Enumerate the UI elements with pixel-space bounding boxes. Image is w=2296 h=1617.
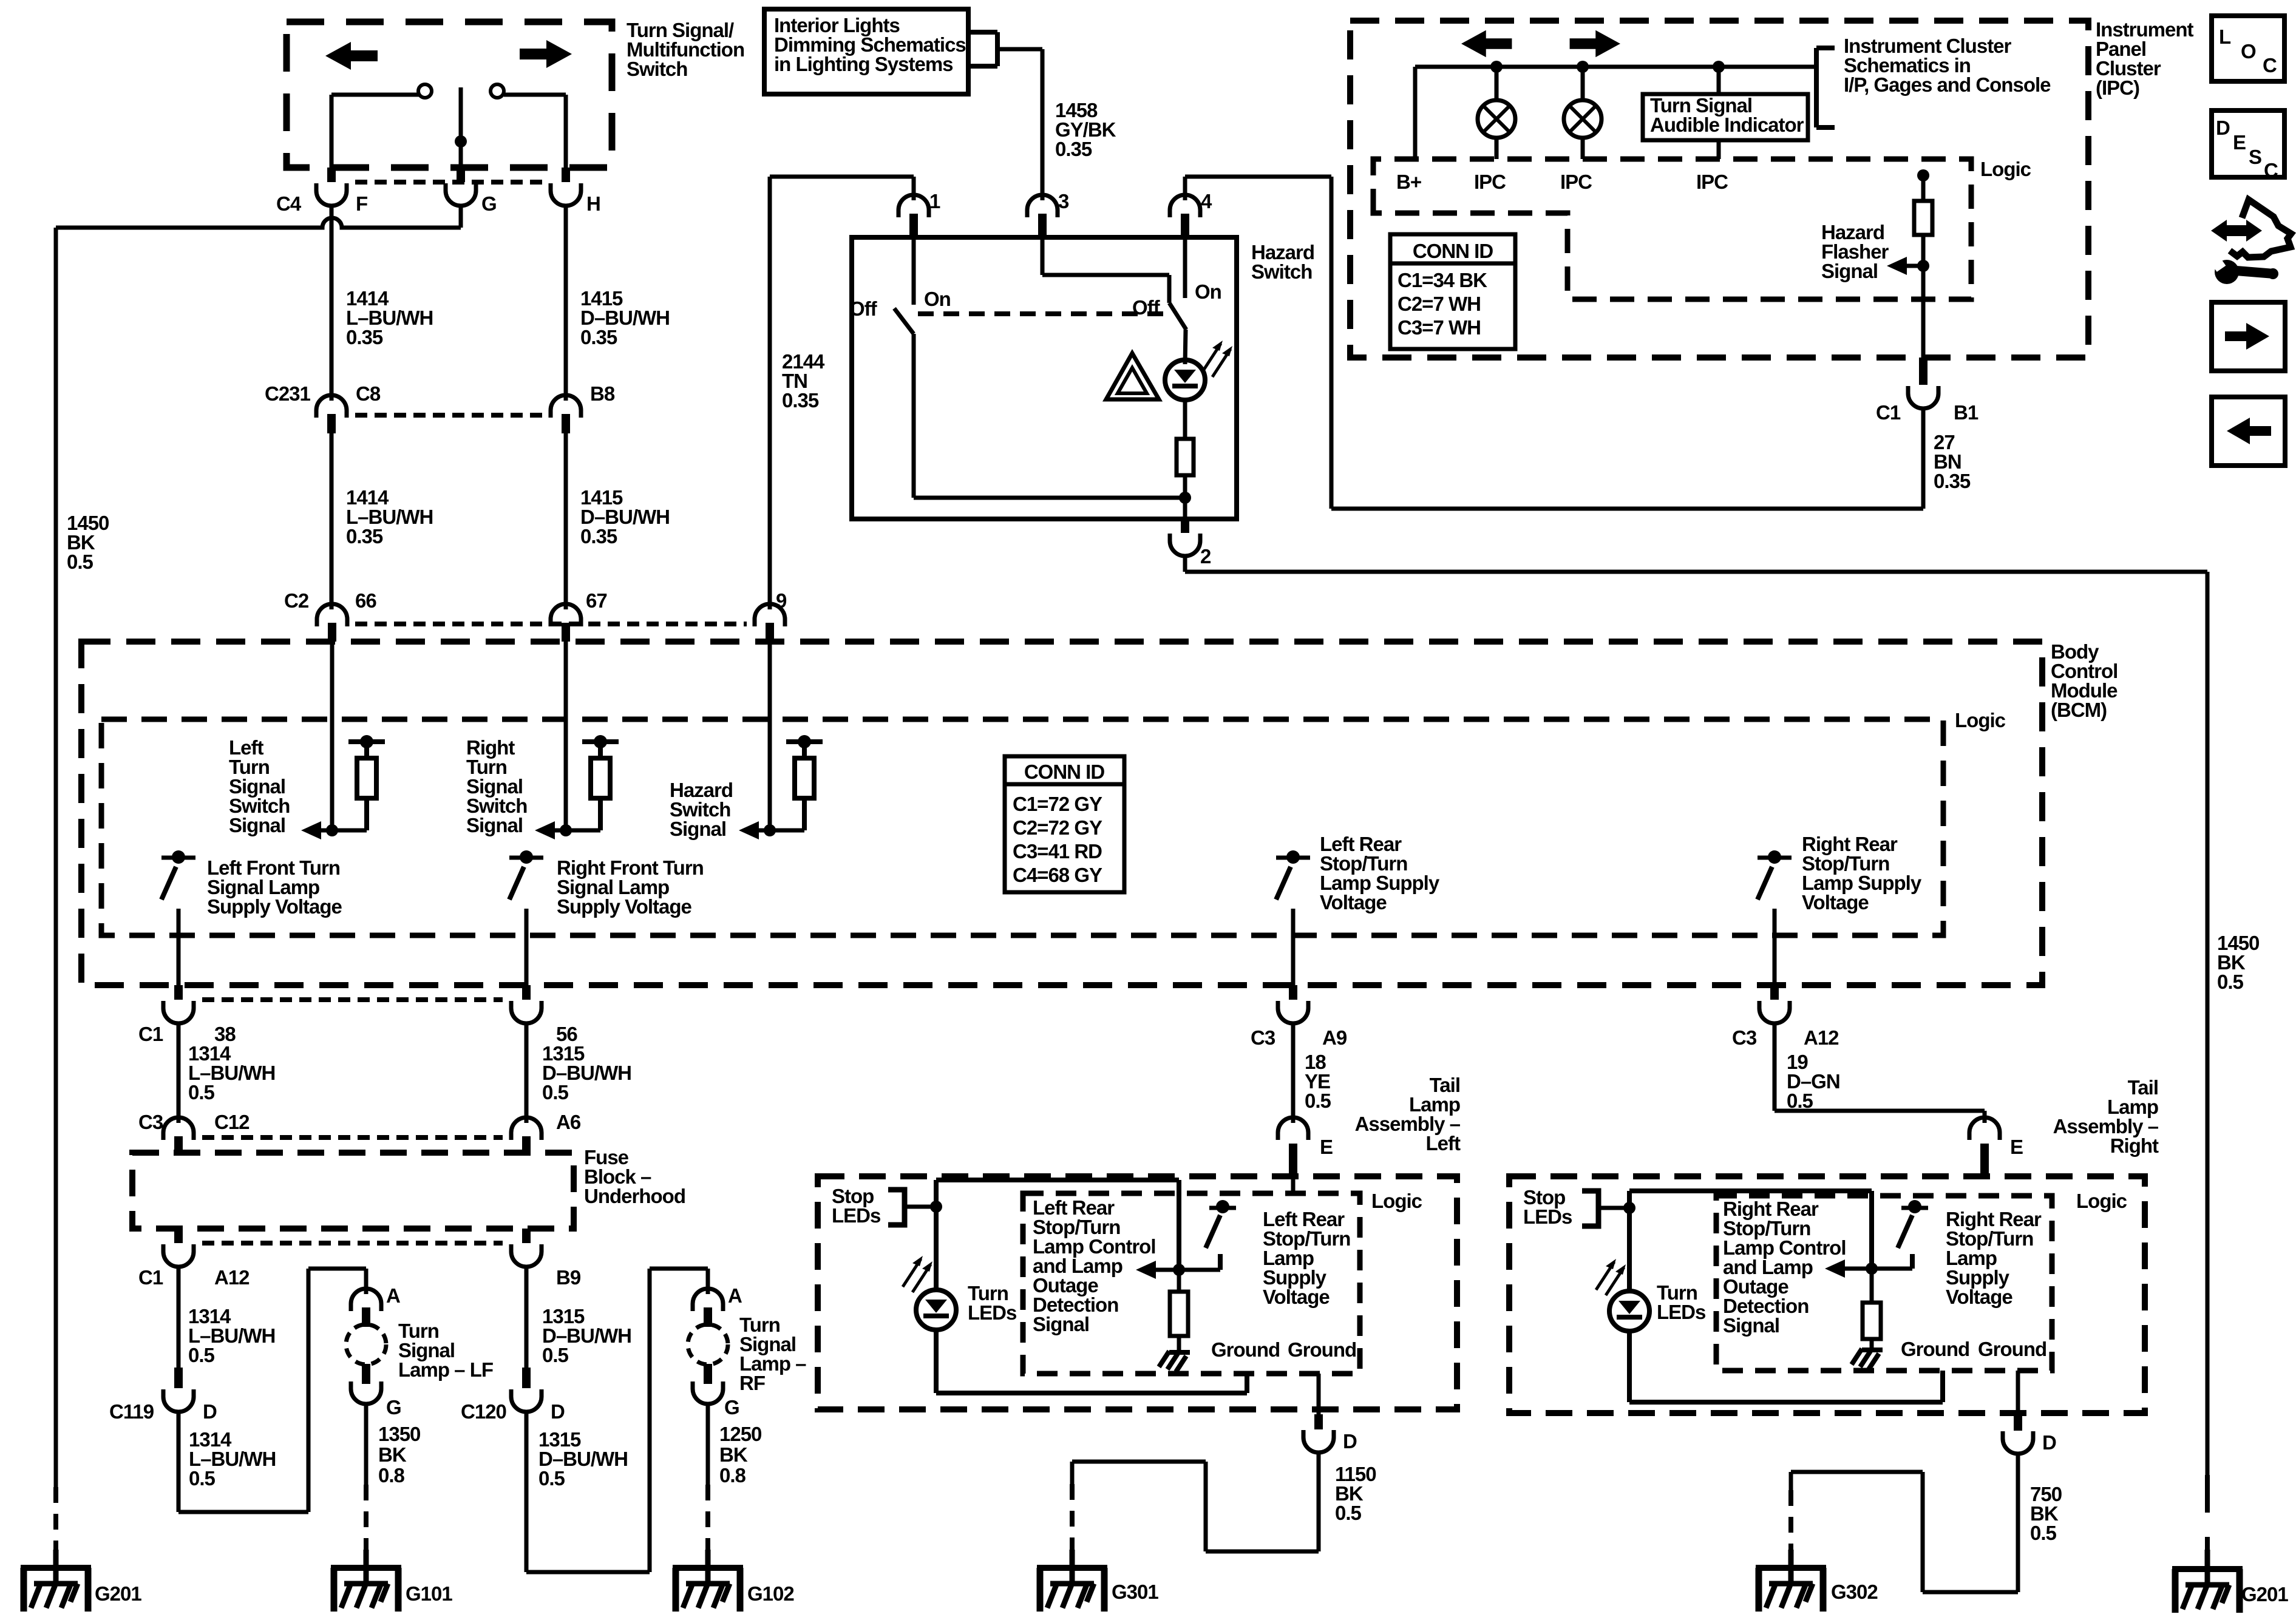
- wire 1315 (C120.D to RF lamp A): [526, 1269, 708, 1572]
- text tail lamp assembly right: [2053, 1076, 2159, 1157]
- label wire 1450 BK 0.5 (right): [2217, 932, 2259, 993]
- chassis ground (right lamp): [1852, 1349, 1883, 1369]
- instrument panel cluster (IPC) box: [1350, 21, 2088, 358]
- junction dot (right lamp sense): [1866, 1263, 1878, 1275]
- label Logic (right tail lamp): [2076, 1190, 2127, 1212]
- svg-text:B1: B1: [1954, 401, 1978, 424]
- wire switch-1 to junction: [914, 334, 1185, 498]
- svg-text:66: 66: [355, 589, 376, 612]
- hazard switch linkage dashed: [918, 311, 1164, 316]
- label G201 (right): [2241, 1583, 2288, 1605]
- text left rear stop/turn lamp supply voltage: [1263, 1208, 1350, 1308]
- text left front turn signal lamp supply voltage: [207, 856, 342, 918]
- svg-text:Voltage: Voltage: [1320, 891, 1387, 914]
- svg-text:L: L: [2219, 25, 2231, 48]
- driver switch (left rear stop/turn output): [1276, 850, 1310, 900]
- svg-text:C4=68 GY: C4=68 GY: [1013, 864, 1102, 886]
- wire 18 YE (C3.A9 to E left): [1291, 1024, 1296, 1123]
- label C120: [461, 1400, 506, 1423]
- label pin 38: [214, 1023, 236, 1045]
- svg-text:A12: A12: [1804, 1026, 1839, 1049]
- wire H inside switch: [564, 95, 568, 168]
- tail lamp right logic dashed box: [1716, 1196, 2052, 1371]
- svg-text:C1=72 GY: C1=72 GY: [1013, 793, 1102, 815]
- wire 1150 (D to G301): [1072, 1453, 1319, 1554]
- text turn LEDs (right): [1657, 1281, 1705, 1323]
- svg-text:0.35: 0.35: [782, 389, 819, 412]
- label Logic (IPC): [1980, 158, 2031, 180]
- stop LEDs bracket (right): [1582, 1191, 1629, 1226]
- svg-text:C1: C1: [1876, 401, 1901, 424]
- input arrow (left turn signal switch signal): [301, 821, 321, 839]
- ground G102: [673, 1550, 743, 1612]
- wire right turn signal switch signal into BCM: [564, 642, 568, 830]
- turn signal audible indicator box: [1643, 67, 1808, 159]
- text right front turn signal lamp supply voltage: [557, 856, 704, 918]
- svg-text:Logic: Logic: [1955, 709, 2006, 731]
- svg-text:On: On: [1195, 280, 1221, 303]
- text stop LEDs (left): [832, 1185, 880, 1227]
- turn signal lamp - LF (dashed circle): [346, 1324, 386, 1364]
- label Logic (left tail lamp): [1371, 1190, 1422, 1212]
- svg-text:C3: C3: [138, 1111, 163, 1133]
- BCM CONN ID box: [1005, 756, 1124, 892]
- ground G101: [331, 1550, 401, 1612]
- svg-text:0.5: 0.5: [542, 1081, 569, 1103]
- svg-text:0.5: 0.5: [188, 1081, 215, 1103]
- right arrow reference box: [2212, 302, 2285, 371]
- svg-text:E: E: [1320, 1136, 1333, 1158]
- svg-text:C3: C3: [1732, 1026, 1757, 1049]
- svg-text:Logic: Logic: [1980, 158, 2031, 180]
- svg-text:C3=7 WH: C3=7 WH: [1398, 316, 1481, 339]
- label pin D (right lamp): [2042, 1431, 2056, 1454]
- text left turn signal switch signal: [229, 736, 290, 836]
- svg-text:Signal: Signal: [1033, 1313, 1089, 1335]
- label pin E (right): [2010, 1136, 2023, 1158]
- text left rear stop/turn lamp supply voltage (BCM): [1320, 833, 1440, 914]
- label Off (right): [1132, 296, 1161, 319]
- wire 1450 BK left drop: [54, 228, 58, 1554]
- wire ground to D (right lamp): [2016, 1371, 2020, 1415]
- connector E (left tail lamp): [1278, 1117, 1308, 1176]
- stop LEDs bracket (left): [888, 1190, 936, 1225]
- connector C4 row dashed line: [355, 180, 543, 185]
- svg-text:A: A: [386, 1284, 400, 1307]
- svg-text:A9: A9: [1322, 1026, 1347, 1049]
- label pin A6: [556, 1111, 581, 1133]
- wire ground to D (left lamp): [1317, 1374, 1321, 1414]
- wire 1315 (C1.B9 to C120.D): [525, 1267, 529, 1368]
- svg-text:0.35: 0.35: [1934, 470, 1971, 492]
- connector hazard pin 2: [1170, 519, 1200, 556]
- wire hazard switch signal into BCM: [768, 642, 772, 830]
- chassis ground (left lamp): [1159, 1351, 1190, 1372]
- svg-text:Ground: Ground: [1211, 1338, 1280, 1361]
- LED lightning arrows: [1203, 341, 1232, 377]
- text turn signal lamp LF: [398, 1320, 493, 1381]
- svg-text:D: D: [1343, 1430, 1357, 1453]
- hazard switch blade (right): [1169, 303, 1186, 364]
- svg-text:Left: Left: [1426, 1132, 1461, 1154]
- label C3 (fuse block): [138, 1111, 163, 1133]
- label On (left): [924, 288, 951, 310]
- wire LED to resistor: [1183, 400, 1187, 439]
- label pin G: [481, 192, 497, 215]
- connector C3 pin C12: [163, 1117, 194, 1153]
- connector D (left tail lamp): [1303, 1414, 1334, 1453]
- svg-text:D: D: [203, 1400, 217, 1423]
- bracket to instrument cluster schematics: [1816, 48, 1835, 127]
- svg-text:0.5: 0.5: [542, 1344, 569, 1366]
- wire 1314 (C1.38 to C3.C12): [177, 1024, 181, 1123]
- label pin A9: [1322, 1026, 1347, 1049]
- wire left front output to C1.38: [177, 909, 181, 989]
- svg-text:Ground: Ground: [1978, 1338, 2046, 1360]
- junction dot stop LEDs (left): [930, 1201, 942, 1213]
- tail lamp assembly left dashed box: [818, 1176, 1457, 1409]
- svg-text:0.35: 0.35: [1055, 138, 1092, 160]
- wire 2144 (hazard pin 1 to BCM C2.9): [770, 177, 914, 609]
- turn indicator lamp (right): [1564, 67, 1601, 159]
- hazard flasher signal arrow: [1887, 257, 1923, 275]
- svg-text:2: 2: [1200, 545, 1211, 568]
- svg-text:Signal: Signal: [1821, 260, 1878, 282]
- label pin 56: [556, 1023, 577, 1045]
- label pin C8: [356, 382, 381, 405]
- hazard flasher signal node dot: [1917, 169, 1929, 181]
- text left rear stop/turn lamp control: [1033, 1196, 1155, 1335]
- text tail lamp assembly left: [1355, 1074, 1461, 1154]
- wire resistor to junction: [1183, 475, 1187, 498]
- wire hazard pin 4 to IPC B1: [1185, 177, 1923, 509]
- svg-text:IPC: IPC: [1560, 171, 1592, 193]
- label Ground (left lamp, case): [1288, 1338, 1356, 1361]
- wire 1314 (C1.A12 to C119.D): [177, 1267, 181, 1368]
- svg-text:1: 1: [929, 190, 940, 212]
- svg-text:C3: C3: [1251, 1026, 1275, 1049]
- label pin H: [586, 192, 600, 215]
- svg-text:B9: B9: [556, 1266, 581, 1289]
- label wire 1150 BK 0.5: [1335, 1463, 1376, 1524]
- ground G302: [1756, 1550, 1826, 1612]
- ground G201 (left): [21, 1550, 91, 1612]
- connector C2 pin 66: [317, 604, 347, 642]
- label IPC (pin 1): [1474, 171, 1506, 193]
- svg-text:BK: BK: [719, 1443, 748, 1466]
- LED feed top wire (right lamp): [1629, 1191, 1872, 1291]
- svg-text:C1=34 BK: C1=34 BK: [1398, 269, 1487, 291]
- svg-text:D: D: [2216, 117, 2230, 139]
- label wire 1314 L-BU/WH 0.5 (mid): [188, 1305, 275, 1366]
- svg-text:G302: G302: [1831, 1581, 1878, 1603]
- IPC title: [2096, 18, 2194, 99]
- connector C4 pin G: [446, 168, 476, 206]
- label pin 4: [1201, 190, 1212, 212]
- svg-text:0.5: 0.5: [2217, 971, 2244, 993]
- label pin 9: [776, 589, 787, 612]
- label IPC (pin 3): [1696, 171, 1728, 193]
- tail lamp assembly right dashed box: [1509, 1176, 2145, 1413]
- svg-text:Off: Off: [849, 297, 878, 320]
- label wire 27 BN 0.35: [1934, 431, 1971, 492]
- sense resistor feed (right lamp): [1869, 1191, 1874, 1303]
- label pin B8: [590, 382, 615, 405]
- svg-text:(IPC): (IPC): [2096, 76, 2139, 99]
- junction dot bus 3: [1713, 61, 1725, 73]
- svg-text:Switch: Switch: [1251, 260, 1312, 283]
- driver switch (left lamp supply): [1206, 1200, 1236, 1270]
- svg-text:C119: C119: [109, 1400, 154, 1423]
- connector hazard pin 4: [1170, 195, 1200, 237]
- svg-text:Audible Indicator: Audible Indicator: [1650, 114, 1804, 136]
- hazard warning triangle icon: [1106, 353, 1159, 399]
- bracket from interior lights box: [968, 32, 997, 66]
- wire 19 D-GN (C3.A12 to E right): [1775, 1024, 1985, 1123]
- label wire 1315 D-BU/WH 0.5 (upper): [542, 1042, 631, 1103]
- svg-text:1350: 1350: [378, 1423, 420, 1445]
- ground G201 (right): [2172, 1550, 2243, 1613]
- wire right front output to C1.56: [525, 909, 529, 989]
- wire right rear output to C3.A12: [1773, 909, 1777, 989]
- switch common pole G with pivot dot: [455, 87, 467, 168]
- IPC logic dashed box: [1373, 159, 1971, 299]
- label wire 1414 L-BU/WH 0.35 (lower): [346, 486, 433, 547]
- svg-text:Voltage: Voltage: [1802, 891, 1869, 914]
- hazard pin 1 internal wire: [912, 237, 916, 305]
- svg-text:0.5: 0.5: [189, 1467, 216, 1490]
- driver switch (right rear stop/turn output): [1758, 850, 1792, 900]
- svg-text:C: C: [2263, 54, 2277, 76]
- junction dot (hazard switch signal): [764, 824, 776, 836]
- label C4: [276, 192, 302, 215]
- BCM title: [2051, 640, 2118, 721]
- connector A (RF lamp): [693, 1289, 723, 1327]
- svg-text:C120: C120: [461, 1400, 506, 1423]
- svg-text:1250: 1250: [719, 1423, 761, 1445]
- svg-text:0.5: 0.5: [188, 1344, 215, 1366]
- lightning arrows (left lamp LED): [903, 1256, 932, 1292]
- svg-text:0.5: 0.5: [1787, 1090, 1813, 1112]
- label C3 (left rear): [1251, 1026, 1275, 1049]
- pull-up resistor (hazard switch signal): [757, 735, 823, 830]
- label pin 67: [586, 589, 607, 612]
- label wire 1415 D-BU/WH 0.35 (upper): [580, 287, 670, 348]
- label wire 1450 BK 0.5 (left): [67, 512, 109, 573]
- lamp control arrow (right): [1825, 1259, 1912, 1278]
- svg-text:C2: C2: [284, 589, 309, 612]
- svg-text:Signal: Signal: [229, 814, 285, 836]
- svg-text:Lamp – LF: Lamp – LF: [398, 1358, 493, 1381]
- driver switch (left front turn output): [161, 850, 195, 900]
- svg-text:D: D: [2042, 1431, 2056, 1454]
- svg-text:Underhood: Underhood: [584, 1185, 685, 1207]
- svg-text:0.5: 0.5: [2030, 1522, 2057, 1544]
- label Logic (BCM): [1955, 709, 2006, 731]
- switch contact circle (left turn, pin F): [331, 84, 432, 98]
- label G101: [406, 1582, 452, 1605]
- svg-text:On: On: [924, 288, 951, 310]
- jump-to-schematic wrench icon: [2211, 200, 2291, 284]
- ground G301: [1037, 1550, 1107, 1612]
- junction dot (left lamp sense): [1173, 1264, 1185, 1276]
- driver switch (right lamp supply): [1898, 1200, 1928, 1269]
- label Ground (right lamp, LED): [1901, 1338, 1969, 1360]
- lamp control arrow (left): [1136, 1261, 1220, 1279]
- label pin E (left): [1320, 1136, 1333, 1158]
- svg-text:0.5: 0.5: [1335, 1502, 1362, 1524]
- svg-text:C3=41 RD: C3=41 RD: [1013, 840, 1102, 863]
- label wire 1415 D-BU/WH 0.35 (lower): [580, 486, 670, 547]
- label C119: [109, 1400, 154, 1423]
- driver switch (right front turn output): [509, 850, 543, 900]
- label wire 1350 BK 0.8: [378, 1423, 420, 1486]
- pull-up resistor (left turn signal switch signal): [319, 735, 385, 830]
- connector C4 pin F: [316, 168, 347, 206]
- IPC CONN ID box: [1390, 234, 1515, 349]
- svg-text:LEDs: LEDs: [1523, 1205, 1572, 1228]
- svg-text:Signal: Signal: [670, 818, 726, 840]
- switch contact circle (right turn, pin H): [491, 84, 566, 98]
- junction dot hazard flasher: [1917, 260, 1929, 272]
- hazard pin 3 internal feed: [1042, 237, 1169, 303]
- hazard flasher signal text: [1821, 221, 1889, 282]
- connector C231 pin C8: [316, 395, 347, 433]
- svg-text:C8: C8: [356, 382, 381, 405]
- svg-text:0.5: 0.5: [67, 551, 93, 573]
- input arrow (hazard switch signal): [739, 821, 759, 839]
- label G201 (left): [95, 1582, 141, 1605]
- connector G (RF lamp): [693, 1364, 723, 1404]
- junction dot bus 2: [1577, 61, 1589, 73]
- label Ground (left lamp, LED): [1211, 1338, 1280, 1361]
- label pin G (RF): [724, 1396, 739, 1419]
- wire from G to left 1450 drop: [56, 206, 461, 228]
- connector C1 pin 56: [511, 985, 542, 1023]
- wire 1315 (C1.56 to C3.A6): [525, 1024, 529, 1123]
- connector D (right tail lamp): [2003, 1415, 2033, 1454]
- resistor (hazard illumination): [1177, 439, 1194, 475]
- svg-text:0.35: 0.35: [580, 525, 617, 547]
- DESC reference box: [2212, 110, 2284, 181]
- label G301: [1112, 1581, 1158, 1603]
- label wire 1314 L-BU/WH 0.5 (upper): [188, 1042, 275, 1103]
- label Off (left): [849, 297, 878, 320]
- svg-text:0.35: 0.35: [346, 525, 383, 547]
- label wire 1414 L-BU/WH 0.35 (upper): [346, 287, 433, 348]
- text right rear stop/turn lamp supply voltage: [1946, 1208, 2042, 1308]
- label pin 66: [355, 589, 376, 612]
- label B+: [1396, 171, 1421, 193]
- label wire 1315 D-BU/WH 0.5 (lower): [538, 1428, 628, 1490]
- wire resistor to chassis ground (left lamp): [1177, 1336, 1181, 1350]
- text hazard switch signal: [670, 779, 733, 840]
- tail lamp left logic dashed box: [1023, 1193, 1360, 1374]
- svg-text:Supply Voltage: Supply Voltage: [207, 895, 342, 918]
- connector C1 pin 38: [163, 985, 194, 1023]
- turn signal/multifunction switch box: [287, 22, 612, 168]
- wire junction to pin 2: [1183, 498, 1187, 519]
- label pin B1: [1954, 401, 1978, 424]
- hazard pin 4 internal wire: [1183, 237, 1187, 298]
- label Ground (right lamp, case): [1978, 1338, 2046, 1360]
- sense resistor feed (left lamp): [1177, 1180, 1181, 1292]
- wire 1250 (RF lamp G to G102): [706, 1403, 710, 1554]
- svg-text:G: G: [386, 1396, 401, 1419]
- text right rear stop/turn lamp control: [1723, 1198, 1846, 1337]
- connector C3 pin A6: [511, 1117, 542, 1153]
- svg-text:IPC: IPC: [1474, 171, 1506, 193]
- svg-text:Ground: Ground: [1288, 1338, 1356, 1361]
- svg-text:O: O: [2241, 40, 2256, 63]
- label pin B9: [556, 1266, 581, 1289]
- connector C3 row dashed line: [202, 1135, 503, 1140]
- left arrow reference box: [2212, 397, 2285, 466]
- junction dot (left turn signal switch signal): [326, 824, 338, 836]
- svg-text:Voltage: Voltage: [1946, 1286, 2012, 1308]
- svg-text:RF: RF: [739, 1372, 765, 1394]
- junction dot hazard: [1179, 492, 1191, 504]
- input arrow (right turn signal switch signal): [535, 821, 555, 839]
- IPC B+ bus wire: [1415, 67, 1816, 159]
- svg-text:Ground: Ground: [1901, 1338, 1969, 1360]
- svg-text:in Lighting Systems: in Lighting Systems: [774, 53, 953, 75]
- svg-text:B8: B8: [590, 382, 615, 405]
- svg-text:Signal: Signal: [466, 814, 523, 836]
- svg-text:0.35: 0.35: [580, 326, 617, 348]
- wire 1350 (LF lamp G to G101): [364, 1403, 369, 1554]
- wire 1414 (C4.F to C231.C8): [330, 206, 334, 401]
- junction dot stop LEDs (right): [1623, 1202, 1635, 1214]
- wire to hazard flasher resistor: [1921, 175, 1926, 201]
- svg-text:0.35: 0.35: [346, 326, 383, 348]
- connector hazard pin 3: [1027, 195, 1058, 237]
- svg-text:Signal: Signal: [1723, 1314, 1779, 1337]
- label wire 750 BK 0.5: [2030, 1483, 2062, 1544]
- wire 1314 (C119.D to LF lamp A): [178, 1269, 366, 1512]
- label G102: [747, 1582, 794, 1605]
- wire IPC to connector C1.B1: [1921, 266, 1926, 384]
- svg-text:Supply Voltage: Supply Voltage: [557, 895, 692, 918]
- svg-text:G301: G301: [1112, 1581, 1158, 1603]
- label wire 1315 D-BU/WH 0.5 (mid): [542, 1305, 631, 1366]
- svg-text:67: 67: [586, 589, 607, 612]
- interior lights dimming schematics box: [764, 9, 968, 94]
- connector C2 pin 67: [551, 604, 581, 642]
- svg-text:LEDs: LEDs: [1657, 1301, 1705, 1323]
- label pin G (LF): [386, 1396, 401, 1419]
- wire 1450 (hazard pin 2 to G201 right): [1185, 557, 2207, 1551]
- svg-text:0.5: 0.5: [538, 1467, 565, 1490]
- fuse block - underhood dashed box: [132, 1153, 574, 1229]
- turn signal switch title: [627, 19, 744, 80]
- connector C3 pin A12 (right rear): [1759, 985, 1790, 1023]
- connector C119 pin D: [163, 1368, 194, 1412]
- label pin A12: [214, 1266, 250, 1289]
- wire E into left lamp logic: [1291, 1176, 1296, 1193]
- text right turn signal switch signal: [466, 736, 527, 836]
- connector C2 pin 9: [755, 604, 785, 642]
- svg-text:C231: C231: [265, 382, 311, 405]
- hazard switch blade (left): [894, 308, 914, 334]
- connector E (right tail lamp): [1969, 1117, 2000, 1178]
- wire 1458 (interior lights to hazard pin 3): [997, 49, 1042, 200]
- connector C1 row dashed line: [202, 997, 503, 1002]
- label pin 3: [1058, 190, 1069, 212]
- svg-text:Off: Off: [1132, 296, 1161, 319]
- wire resistor to chassis ground (right lamp): [1870, 1339, 1874, 1347]
- LED cathode wire to ground bar (right lamp): [1629, 1331, 1943, 1402]
